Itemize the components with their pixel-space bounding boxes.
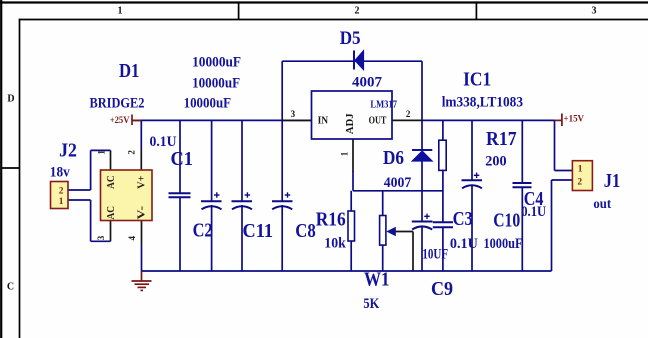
svg-text:10k: 10k <box>324 235 346 251</box>
svg-text:2: 2 <box>127 150 137 155</box>
svg-text:out: out <box>593 196 611 211</box>
svg-text:AC: AC <box>105 206 117 220</box>
svg-text:1: 1 <box>118 6 123 17</box>
svg-text:C8: C8 <box>295 221 316 242</box>
svg-text:2: 2 <box>406 109 411 119</box>
svg-text:C10: C10 <box>493 211 520 232</box>
svg-text:OUT: OUT <box>369 116 387 127</box>
svg-text:1: 1 <box>578 165 583 175</box>
svg-text:J2: J2 <box>59 141 77 162</box>
svg-text:5K: 5K <box>363 296 379 312</box>
svg-text:10000uF: 10000uF <box>184 96 232 112</box>
svg-text:3: 3 <box>291 109 296 119</box>
svg-text:1: 1 <box>340 151 350 156</box>
svg-text:200: 200 <box>485 154 506 170</box>
svg-text:R16: R16 <box>316 209 346 230</box>
svg-text:lm338,LT1083: lm338,LT1083 <box>442 94 523 110</box>
svg-text:D6: D6 <box>383 148 404 169</box>
svg-text:LM317: LM317 <box>370 100 397 111</box>
svg-text:10UF: 10UF <box>422 247 448 263</box>
svg-text:18v: 18v <box>50 165 70 181</box>
svg-text:2: 2 <box>355 6 360 17</box>
svg-text:2: 2 <box>59 187 64 197</box>
svg-text:V+: V+ <box>135 175 147 189</box>
svg-text:10000uF: 10000uF <box>192 54 241 70</box>
svg-text:3: 3 <box>592 6 597 17</box>
svg-text:C: C <box>7 282 14 293</box>
svg-text:1000uF: 1000uF <box>484 236 523 252</box>
svg-text:D5: D5 <box>340 28 361 49</box>
svg-text:R17: R17 <box>486 129 517 150</box>
svg-text:4: 4 <box>127 236 137 241</box>
svg-text:1: 1 <box>59 197 64 207</box>
svg-text:+25V: +25V <box>110 116 130 126</box>
svg-text:0.1U: 0.1U <box>150 134 177 150</box>
svg-text:C3: C3 <box>453 209 473 230</box>
svg-text:D1: D1 <box>119 61 139 82</box>
svg-text:C11: C11 <box>243 221 274 242</box>
svg-text:W1: W1 <box>364 269 390 290</box>
svg-text:D: D <box>7 94 14 105</box>
svg-text:V-: V- <box>135 206 147 220</box>
svg-text:2: 2 <box>577 178 582 188</box>
svg-text:IC1: IC1 <box>463 70 491 91</box>
svg-text:0.1U: 0.1U <box>450 236 478 252</box>
svg-text:IN: IN <box>318 116 329 127</box>
svg-text:4007: 4007 <box>352 75 383 91</box>
svg-text:AC: AC <box>105 175 117 189</box>
svg-text:C9: C9 <box>431 279 453 300</box>
svg-text:4007: 4007 <box>384 175 412 191</box>
svg-text:0.1U: 0.1U <box>521 204 546 220</box>
svg-text:BRIDGE2: BRIDGE2 <box>90 96 145 112</box>
svg-text:J1: J1 <box>604 171 621 192</box>
svg-text:ADJ: ADJ <box>345 113 356 134</box>
svg-text:+15V: +15V <box>564 115 585 125</box>
svg-text:10000uF: 10000uF <box>192 75 240 91</box>
svg-text:3: 3 <box>96 235 106 240</box>
svg-text:C2: C2 <box>193 221 213 242</box>
svg-text:C1: C1 <box>171 149 194 170</box>
svg-text:1: 1 <box>97 150 107 155</box>
